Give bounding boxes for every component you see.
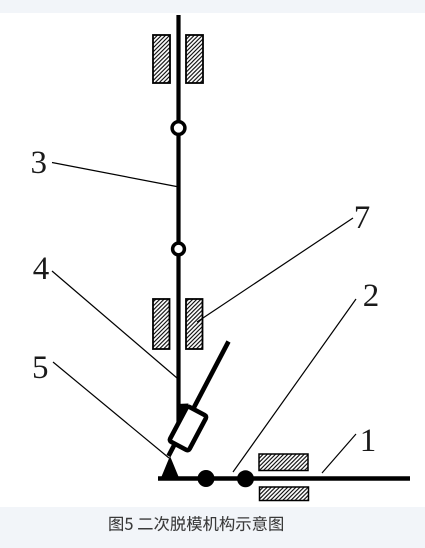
- link rod (slanted): [169, 342, 229, 457]
- leader line to label 4: [52, 271, 177, 378]
- pivot triangle: [161, 456, 180, 479]
- bottom footer strip: [0, 507, 425, 548]
- svg-text:7: 7: [354, 200, 371, 236]
- guide bushing hatch top-right: [186, 35, 203, 83]
- svg-text:3: 3: [31, 145, 48, 181]
- pin joint lower: [173, 243, 185, 255]
- leader line to label 7: [197, 218, 353, 322]
- guide bushing hatch mid-right: [186, 299, 203, 349]
- svg-text:4: 4: [33, 251, 50, 287]
- top header strip: [0, 0, 425, 13]
- svg-text:2: 2: [363, 278, 380, 314]
- roller 2: [237, 470, 254, 487]
- leader line to label 3: [52, 163, 177, 187]
- svg-text:5: 5: [32, 350, 49, 386]
- leader line to label 5: [53, 362, 169, 458]
- leader line to label 2: [233, 299, 356, 472]
- base line horizontal: [158, 476, 410, 481]
- base hatch upper: [259, 454, 308, 471]
- guide bushing hatch top-left: [153, 35, 170, 83]
- roller 1: [198, 470, 215, 487]
- main ejector rod (vertical): [176, 15, 180, 424]
- svg-text:1: 1: [360, 423, 377, 459]
- base hatch lower: [260, 487, 309, 501]
- junction wedge where ejector rod meets slider: [177, 404, 189, 424]
- pin joint upper: [172, 122, 185, 135]
- leader line to label 1: [322, 434, 356, 473]
- slider block on slanted rod: [169, 406, 207, 451]
- guide bushing hatch mid-left: [153, 299, 170, 349]
- caption 图5 二次脱模机构示意图: [109, 516, 283, 531]
